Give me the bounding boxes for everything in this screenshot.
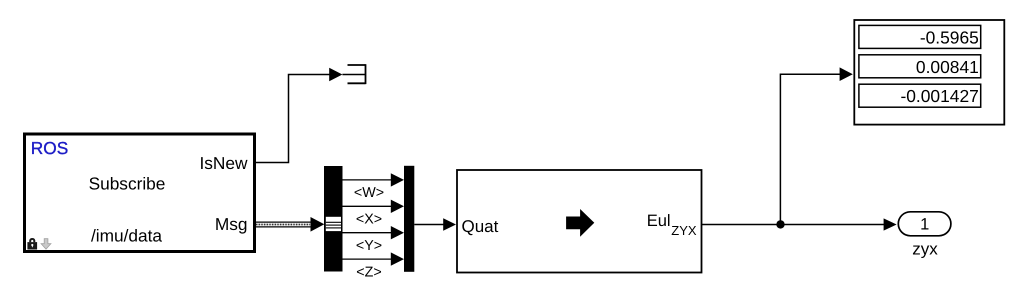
svg-text:ZYX: ZYX (671, 223, 697, 238)
port Quat (462, 217, 499, 236)
svg-text:IsNew: IsNew (199, 153, 248, 173)
label Subscribe (89, 174, 166, 194)
port Msg (215, 214, 248, 234)
svg-text:<Y>: <Y> (356, 238, 382, 254)
block U1 ROS Subscribe (25, 134, 255, 252)
wire Msg bus to Bus Selector (256, 217, 324, 232)
svg-text:-0.001427: -0.001427 (900, 86, 978, 106)
svg-text:0.00841: 0.00841 (916, 57, 979, 77)
junction dot (776, 220, 784, 228)
icon big arrow (566, 209, 594, 237)
label <Y> (356, 238, 382, 254)
block Outport 1 zyx (898, 212, 951, 236)
svg-text:Eul: Eul (647, 212, 671, 230)
wire Mux to Quat (414, 218, 456, 231)
block Bus Selector (324, 166, 343, 272)
block U2 Quaternion to Euler (457, 170, 702, 273)
block Display (854, 20, 1004, 125)
wire selector Z (343, 252, 405, 265)
icon padlock (27, 238, 37, 250)
label zyx (912, 239, 938, 258)
svg-text:zyx: zyx (912, 239, 938, 258)
icon gray down-arrow (41, 239, 51, 249)
svg-text:1: 1 (920, 215, 929, 233)
wire selector X (343, 200, 405, 213)
block Mux (404, 166, 414, 272)
svg-text:/imu/data: /imu/data (91, 226, 162, 246)
block Terminator (342, 64, 365, 84)
display field 3 (859, 84, 981, 107)
display field 1 (859, 25, 981, 48)
svg-text:Msg: Msg (215, 214, 248, 234)
svg-text:<Z>: <Z> (356, 264, 381, 280)
svg-text:<X>: <X> (356, 212, 382, 228)
label ROS (31, 138, 68, 158)
svg-text:Quat: Quat (462, 217, 499, 236)
label <Z> (356, 264, 381, 280)
wire Eul to junction to outport (702, 218, 897, 230)
port IsNew (199, 153, 248, 173)
wire selector Y (343, 226, 405, 239)
wire junction up to Display (780, 67, 852, 224)
port Eul ZYX (647, 212, 697, 238)
label /imu/data (91, 226, 162, 246)
label <X> (356, 212, 382, 228)
wire IsNew to Terminator (256, 68, 342, 163)
svg-text:<W>: <W> (354, 185, 384, 201)
svg-text:ROS: ROS (31, 138, 68, 158)
display field 2 (859, 55, 981, 78)
label <W> (354, 185, 384, 201)
svg-text:-0.5965: -0.5965 (920, 27, 979, 47)
wire selector W (343, 173, 405, 186)
svg-text:Subscribe: Subscribe (89, 174, 166, 194)
